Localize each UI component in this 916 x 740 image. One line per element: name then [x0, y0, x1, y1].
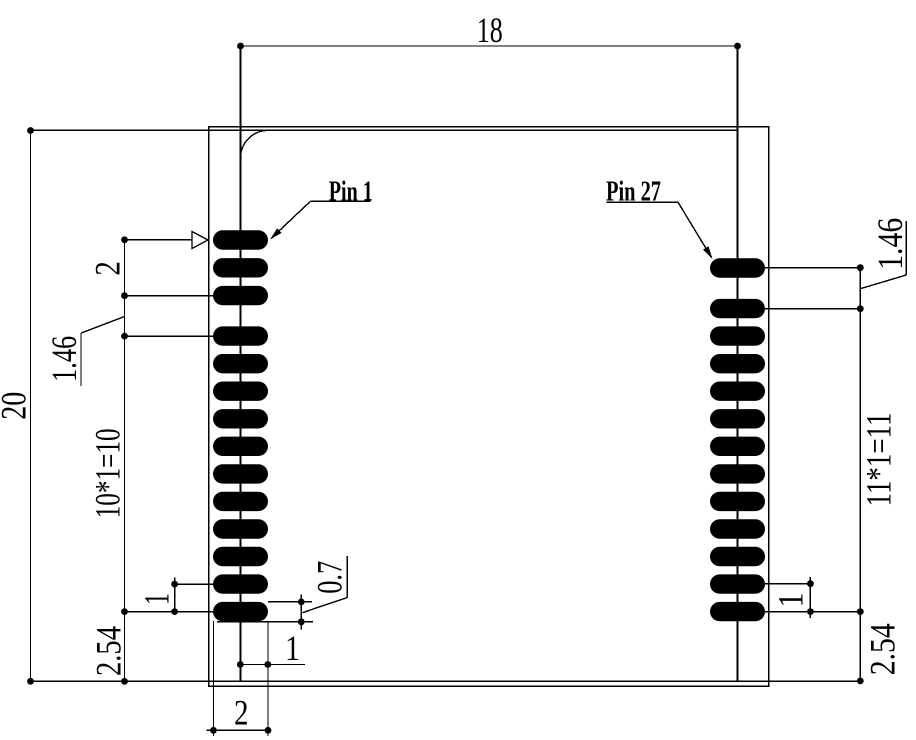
svg-text:2: 2 [234, 693, 249, 733]
left dimension column line [124, 240, 126, 682]
wire left pad centerline [240, 46, 242, 681]
extension line pin16 center [765, 583, 810, 585]
corner fillet arc [241, 130, 269, 158]
pad pin 17 [710, 547, 765, 566]
label shelf 1.46 right [905, 221, 907, 275]
svg-text:10*1=10: 10*1=10 [87, 428, 127, 518]
dimension line 2 bottom [207, 729, 272, 731]
extension line pin27 center [765, 267, 860, 269]
dim dot 2.54 bottom left [121, 678, 128, 685]
dim dot 2 bottom a [210, 727, 217, 734]
pad pin 1 [213, 230, 268, 249]
dim dot 1.46 right bottom [857, 305, 864, 312]
arrowhead Pin 27 [703, 246, 713, 259]
pad pin 22 [710, 409, 765, 428]
leader 1.46 right [861, 275, 906, 289]
pad pin 7 [213, 409, 268, 428]
dim dot 2.54 right bottom [857, 678, 864, 685]
extension line pad left edge [213, 621, 215, 736]
extension line pin13 center [175, 583, 214, 585]
dim dot 1 right bottom [807, 608, 814, 615]
underline Pin 27 [607, 201, 679, 203]
pad pin 14 [213, 602, 268, 621]
dim dot 1 right top [807, 580, 814, 587]
svg-text:2.54: 2.54 [863, 623, 903, 675]
svg-text:1: 1 [137, 593, 177, 605]
leader 1.46 left [81, 317, 124, 333]
leader Pin 1 [271, 201, 310, 238]
dim dot 18 left [237, 43, 244, 50]
right dimension column line [859, 268, 861, 681]
pad pin 3 [213, 286, 268, 305]
extension line pad bottom [217, 621, 313, 623]
pin 1 marker triangle [192, 232, 208, 249]
svg-text:0.7: 0.7 [310, 561, 350, 594]
inner bottom edge line [30, 680, 861, 682]
svg-text:Pin 1: Pin 1 [329, 175, 373, 207]
svg-text:1.46: 1.46 [44, 336, 84, 382]
pad pin 11 [213, 519, 268, 538]
dim dot 10x1 bottom [121, 608, 128, 615]
pad pin 25 [710, 326, 765, 345]
pad pin 20 [710, 464, 765, 483]
dimension line 20 [30, 131, 32, 682]
pad pin 23 [710, 382, 765, 401]
pad pin 27 [710, 258, 765, 277]
dim dot 0.7 bottom [298, 618, 305, 625]
svg-text:11*1=11: 11*1=11 [859, 413, 899, 507]
pad pin 19 [710, 492, 765, 511]
dim dot 20 top [27, 127, 34, 134]
dimension line 1 bottom [240, 664, 305, 666]
dim dot 11x1 bottom [857, 608, 864, 615]
svg-text:1: 1 [771, 593, 811, 608]
pad pin 24 [710, 354, 765, 373]
svg-text:18: 18 [477, 10, 503, 50]
dim dot 1.46 bottom left [121, 333, 128, 340]
extension line pin15 center [765, 611, 860, 613]
dim dot 1.46 right top [857, 264, 864, 271]
extension line pad top [268, 601, 312, 603]
dim dot 20 bottom [27, 678, 34, 685]
pad pin 8 [213, 437, 268, 456]
label shelf 1.46 left [80, 333, 82, 386]
dimension line 18 [241, 45, 738, 47]
svg-text:1.46: 1.46 [870, 218, 910, 270]
svg-text:20: 20 [0, 392, 33, 420]
arrowhead Pin 1 [270, 228, 282, 239]
pad pin 6 [213, 382, 268, 401]
pad pin 5 [213, 354, 268, 373]
svg-text:2: 2 [87, 261, 127, 276]
dim dot 18 right [734, 43, 741, 50]
dim dot 1 left bottom [171, 608, 178, 615]
dim dot 2 bottom [121, 292, 128, 299]
wire right pad centerline [737, 46, 739, 681]
pad pin 10 [213, 492, 268, 511]
dimension line 1 left [174, 578, 176, 616]
dim dot 0.7 top [298, 599, 305, 606]
pad pin 21 [710, 437, 765, 456]
pad pin 16 [710, 574, 765, 593]
pad pin 2 [213, 258, 268, 277]
dim dot 1 left top [171, 581, 178, 588]
dim dot 2 bottom b [265, 727, 272, 734]
extension line pin1 center [125, 239, 193, 241]
module outline [209, 127, 769, 687]
pad pin 13 [213, 574, 268, 593]
dim dot 1 bottom a [237, 661, 244, 668]
pad pin 4 [213, 326, 268, 345]
pad pin 9 [213, 464, 268, 483]
pad pin 12 [213, 547, 268, 566]
pad pin 18 [710, 519, 765, 538]
extension line pad right edge [267, 621, 269, 736]
pad pin 15 [710, 602, 765, 621]
extension line pin3 center [125, 295, 214, 297]
leader Pin 27 [678, 202, 712, 257]
label shelf 0.7 [346, 556, 348, 598]
extension line pin4 center [125, 335, 214, 337]
svg-text:Pin 27: Pin 27 [606, 175, 661, 207]
pad pin 26 [710, 299, 765, 318]
inner top edge line [31, 129, 738, 131]
extension line pin14 center [125, 611, 214, 613]
extension line pin26 center [765, 308, 860, 310]
dim dot 2 top [121, 236, 128, 243]
svg-text:1: 1 [285, 628, 300, 668]
dim dot 1 bottom b [264, 661, 271, 668]
underline Pin 1 [310, 200, 370, 202]
leader 0.7 [302, 598, 347, 613]
dimension line 1 right [809, 577, 811, 618]
svg-text:2.54: 2.54 [89, 626, 129, 676]
dimension line 0.7 [300, 594, 302, 629]
